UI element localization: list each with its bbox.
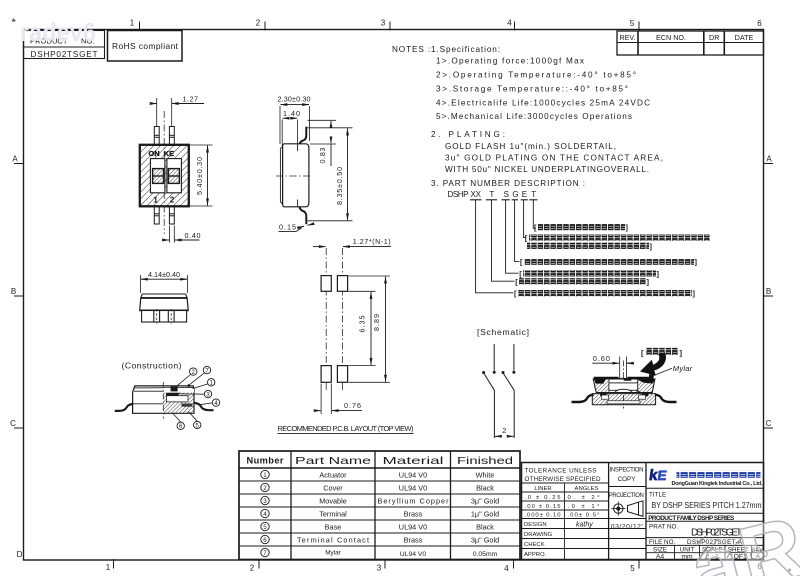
svg-text:5>.Mechanical Life:3000cycles: 5>.Mechanical Life:3000cycles Operations [436, 112, 632, 121]
zone ticks left [14, 164, 24, 429]
size row values [656, 553, 761, 560]
svg-text:UL94 V0: UL94 V0 [399, 522, 427, 531]
dim 8.89 [349, 276, 391, 382]
svg-text:3. PART NUMBER DESCRIPTION :: 3. PART NUMBER DESCRIPTION : [431, 179, 585, 188]
construction top film [134, 387, 193, 389]
svg-text:1: 1 [130, 19, 135, 28]
svg-text:4.14±0.40: 4.14±0.40 [148, 270, 180, 279]
svg-text:Movable: Movable [319, 496, 347, 505]
designator underlines [470, 199, 538, 201]
terminal contact dark bit [182, 404, 193, 407]
svg-text:DongGuan Kingtek Industrial Co: DongGuan Kingtek Industrial Co., Ltd. [672, 481, 763, 487]
svg-text:REV.: REV. [619, 33, 635, 42]
svg-text:1μ" Gold: 1μ" Gold [471, 509, 499, 518]
xsection right lead [655, 395, 677, 403]
switch 2 contacts [512, 371, 515, 374]
svg-text:APPRO.: APPRO. [524, 552, 547, 558]
color annotation line 4 [519, 269, 659, 278]
svg-text:4: 4 [507, 19, 512, 28]
svg-text:LINER: LINER [534, 486, 551, 492]
svg-text:E: E [522, 190, 527, 199]
svg-text:NOTES :1.Specification:: NOTES :1.Specification: [392, 45, 500, 54]
slider knob [171, 387, 178, 392]
materials [378, 470, 450, 558]
svg-text:8.35±0.50: 8.35±0.50 [335, 167, 344, 205]
svg-text:[: [ [525, 234, 528, 243]
svg-text:]: ] [680, 349, 683, 358]
svg-text:Beryllium Copper: Beryllium Copper [378, 496, 450, 505]
svg-text:[: [ [514, 289, 517, 298]
notes text [392, 45, 663, 188]
dim 5.40 line [207, 146, 209, 206]
lower body hatched [592, 394, 655, 405]
balloon 6 [173, 413, 185, 430]
dim 1.27 extension lines [157, 98, 172, 126]
svg-text:B: B [766, 287, 771, 296]
svg-text:Number: Number [247, 455, 284, 465]
svg-text:2.30±0.30: 2.30±0.30 [278, 95, 311, 104]
svg-text:TITLE: TITLE [649, 492, 666, 499]
side view top lead [300, 127, 307, 150]
pad centerlines [326, 248, 342, 392]
svg-text:3μ" Gold: 3μ" Gold [471, 496, 499, 505]
svg-text:(Construction): (Construction) [122, 361, 182, 371]
switch body hatched [140, 145, 189, 207]
svg-text:Cover: Cover [323, 483, 343, 492]
side view body [283, 144, 309, 207]
projection symbol [611, 501, 643, 517]
section centerline [623, 361, 625, 409]
svg-text:T: T [489, 190, 494, 199]
svg-text:R: R [730, 499, 800, 576]
front view base with feet [142, 311, 187, 323]
bottom pins [154, 207, 174, 225]
svg-text:Terminal: Terminal [319, 509, 347, 518]
svg-text:4>.Electricalife Life:1000cycl: 4>.Electricalife Life:1000cycles 25mA 24… [436, 99, 650, 108]
svg-text:A: A [12, 155, 18, 164]
svg-text:0.83: 0.83 [318, 148, 327, 164]
svg-text:.000± 0.10: .000± 0.10 [525, 512, 562, 518]
RoHS compliant box [108, 31, 183, 62]
svg-text:[: [ [534, 223, 537, 232]
svg-text:D: D [17, 550, 23, 559]
svg-text:3>.Storage Temperature::-40° t: 3>.Storage Temperature::-40° to+85° [436, 85, 628, 94]
svg-text:0.05mm: 0.05mm [473, 551, 498, 558]
dim 0.76 [321, 384, 331, 415]
part number DSHP XX T S G E T [448, 190, 537, 199]
construction left lead [115, 404, 133, 411]
svg-text:RoHS compliant: RoHS compliant [112, 41, 179, 51]
svg-text:E: E [657, 468, 668, 483]
svg-text:radev6: radev6 [20, 17, 96, 47]
tin annotation line 5 [515, 277, 649, 286]
dim 0.83 [308, 120, 337, 144]
svg-text:[: [ [515, 277, 518, 286]
svg-text:UL94 V0: UL94 V0 [399, 470, 427, 479]
svg-text:6: 6 [263, 537, 267, 544]
svg-text:[: [ [520, 258, 523, 267]
svg-text:]: ] [626, 223, 629, 232]
svg-text:DESIGN: DESIGN [524, 522, 547, 528]
svg-text:CHECK: CHECK [524, 542, 545, 548]
side view centerline [276, 175, 313, 177]
balloon 7 [187, 366, 210, 387]
svg-text:.0 ± 1°: .0 ± 1° [568, 504, 600, 510]
REV/ECN table [617, 31, 764, 55]
svg-text:B: B [11, 287, 16, 296]
tolerance text [525, 468, 601, 483]
svg-text:COPY: COPY [618, 476, 637, 483]
svg-text:DSHP: DSHP [448, 190, 469, 199]
svg-text:]: ] [657, 269, 660, 278]
construction right lead [194, 403, 214, 410]
svg-text:Brass: Brass [404, 509, 423, 518]
svg-text:Base: Base [325, 522, 342, 531]
svg-text:ON: ON [149, 149, 160, 158]
svg-text:7: 7 [263, 550, 267, 557]
svg-text:C: C [10, 419, 16, 428]
title block grid [522, 463, 764, 560]
zone letters left [10, 155, 23, 560]
upper body hatch right [638, 379, 655, 393]
finishes [471, 470, 499, 558]
svg-text:DSHP02TSGET: DSHP02TSGET [31, 50, 98, 59]
mylar film bar [594, 377, 619, 379]
svg-text:FILE NO.: FILE NO. [649, 539, 675, 546]
packing annotation line 1 [534, 223, 629, 232]
svg-text:2>.Operating Temperature:-40°: 2>.Operating Temperature:-40° to+85° [436, 71, 636, 80]
svg-text:0.60: 0.60 [593, 354, 610, 363]
svg-text:4: 4 [504, 564, 509, 573]
svg-text:0.40: 0.40 [185, 231, 201, 240]
svg-text:RECOMMENDED P.C.B. LAYOUT (TOP: RECOMMENDED P.C.B. LAYOUT (TOP VIEW) [278, 424, 415, 433]
svg-text:.00± 0.5°: .00± 0.5° [568, 512, 600, 518]
svg-text:[: [ [519, 269, 522, 278]
svg-text:3: 3 [263, 498, 267, 505]
svg-text:A4: A4 [656, 553, 665, 560]
svg-text:1.27: 1.27 [183, 94, 199, 103]
svg-text:DRAWING: DRAWING [524, 532, 553, 538]
svg-text:OTHERWISE SPECIFIED: OTHERWISE SPECIFIED [525, 476, 601, 483]
upper body feet [600, 393, 607, 397]
svg-text:UL94 V0: UL94 V0 [400, 551, 427, 558]
svg-text:1.27*(N-1): 1.27*(N-1) [353, 237, 391, 246]
svg-text:Black: Black [476, 522, 494, 531]
svg-text:4: 4 [263, 511, 267, 518]
svg-text:BY DSHP SERIES PITCH 1.27mm: BY DSHP SERIES PITCH 1.27mm [652, 501, 762, 510]
stroke travel annotation (CJK) [641, 348, 683, 358]
size row headers [653, 546, 765, 553]
svg-text:ECN NO.: ECN NO. [656, 33, 686, 42]
switch cells [150, 159, 181, 193]
svg-text:XX: XX [471, 190, 482, 199]
svg-text:UL94 V0: UL94 V0 [399, 483, 427, 492]
svg-text:]: ] [650, 242, 653, 251]
switch 1 wires [484, 344, 495, 438]
svg-text:G: G [512, 190, 518, 199]
zone numbers top [130, 19, 763, 29]
top view centerline [163, 111, 165, 234]
film clamp wedges [594, 379, 606, 383]
dim 0.40 [163, 239, 200, 241]
svg-text:5: 5 [630, 564, 635, 573]
svg-text:DR: DR [709, 33, 719, 42]
mylar film edge lines [280, 144, 297, 207]
svg-text:5: 5 [630, 19, 635, 28]
svg-text:1: 1 [153, 195, 158, 205]
leader drop lines [476, 200, 536, 293]
svg-text:1: 1 [263, 472, 267, 479]
svg-text:Terminal Contact: Terminal Contact [297, 535, 369, 544]
dim 6.35 [349, 291, 376, 365]
upper body outline [593, 379, 655, 393]
svg-text:2. PLATING:: 2. PLATING: [431, 130, 505, 139]
watermark AR bottom right [681, 499, 800, 576]
zone ticks bottom [114, 559, 640, 569]
svg-text:3u" GOLD PLATING ON THE CONTA: 3u" GOLD PLATING ON THE CONTACT AREA, [445, 154, 663, 163]
svg-text:]: ] [647, 277, 650, 286]
svg-text:SIZE: SIZE [653, 546, 667, 553]
part names [297, 470, 369, 556]
actuators [153, 169, 180, 184]
svg-text:6.35: 6.35 [358, 316, 367, 333]
plating annotation line 2 (two rows) [525, 234, 710, 251]
construction inner lines [133, 391, 163, 404]
svg-text:0.15: 0.15 [279, 223, 296, 232]
zone ticks top [140, 22, 640, 31]
parts table grid [239, 451, 520, 560]
pads [321, 276, 348, 383]
construction centerline [162, 382, 164, 419]
svg-text:[Schematic]: [Schematic] [477, 327, 529, 337]
handwriting scribbles [697, 536, 791, 572]
product no. box [24, 31, 105, 59]
svg-text:A: A [766, 155, 772, 164]
construction sectioned half hatch [163, 393, 194, 414]
svg-text:PROJECTION: PROJECTION [609, 493, 644, 499]
circled item numbers [261, 470, 269, 556]
positions annotation line 6 [514, 289, 696, 298]
company CJK name (blue) [677, 471, 761, 478]
switch 1 contacts [493, 371, 496, 374]
svg-text:Material: Material [383, 456, 444, 467]
svg-text:DATE: DATE [735, 33, 754, 42]
switch 2 wires [503, 344, 514, 438]
svg-text:3: 3 [381, 19, 386, 28]
dim 1.27 [150, 103, 204, 105]
side view bottom lead [300, 201, 307, 224]
front view body [140, 298, 189, 311]
svg-text:3: 3 [377, 564, 382, 573]
balloon 1 [193, 379, 215, 389]
svg-text:.0 ± 0.25: .0 ± 0.25 [525, 495, 562, 501]
svg-text:3μ" Gold: 3μ" Gold [471, 535, 499, 544]
lower body white cutouts [607, 401, 640, 404]
thick curved arrow [640, 353, 666, 376]
svg-text:Actuator: Actuator [319, 470, 347, 479]
svg-text:2: 2 [502, 426, 506, 435]
svg-text:Black: Black [476, 483, 494, 492]
svg-text:ANGLES: ANGLES [575, 486, 599, 492]
svg-text:0. ± 2°: 0. ± 2° [568, 495, 600, 501]
svg-text:kathy: kathy [576, 522, 593, 529]
svg-text:5.40±0.30: 5.40±0.30 [195, 157, 204, 195]
front view top film [141, 294, 187, 298]
svg-text:6: 6 [757, 19, 762, 28]
svg-text:Part Name: Part Name [295, 456, 371, 467]
svg-text:2: 2 [263, 485, 267, 492]
Mylar leader [653, 368, 672, 376]
front view pin centerlines [157, 309, 172, 324]
svg-text:C: C [766, 419, 772, 428]
svg-text:]: ] [695, 258, 698, 267]
balloon 2 [175, 368, 197, 388]
zone numbers bottom [106, 562, 763, 573]
svg-text:1.40: 1.40 [283, 109, 300, 118]
svg-text:GOLD FLASH 1u"(min.) SOLDERTAI: GOLD FLASH 1u"(min.) SOLDERTAIL, [445, 142, 616, 151]
svg-text:0.76: 0.76 [344, 401, 361, 410]
svg-text:Brass: Brass [404, 535, 423, 544]
svg-text:INSPECTION: INSPECTION [610, 468, 644, 474]
svg-text:2: 2 [170, 195, 175, 205]
svg-text:5: 5 [263, 524, 267, 531]
design rows [524, 522, 553, 558]
upper body hatch left [593, 379, 609, 393]
zone letters right [762, 155, 772, 560]
cavity [167, 396, 189, 402]
zone ticks right [764, 164, 774, 429]
svg-text:Mylar: Mylar [673, 364, 693, 373]
xsection left lead [572, 395, 594, 403]
construction body outline [133, 386, 194, 413]
movable contact [166, 393, 180, 396]
upper cavity rect [609, 383, 638, 390]
svg-text:Mylar: Mylar [325, 549, 341, 556]
svg-text:KE: KE [164, 149, 174, 158]
svg-text:2: 2 [250, 564, 255, 573]
svg-text:TOLERANCE UNLESS: TOLERANCE UNLESS [525, 468, 597, 475]
dim 0.40 extension lines [169, 226, 174, 243]
svg-text:Finished: Finished [457, 456, 513, 467]
svg-text:8.89: 8.89 [372, 314, 381, 331]
top pins [154, 127, 174, 146]
svg-text:White: White [476, 470, 495, 479]
dim 5.40 extension lines [190, 145, 213, 206]
mylar corner block [649, 374, 654, 378]
contact dome [615, 389, 641, 392]
balloon 3 [172, 390, 212, 398]
svg-text:WITH 50u" NICKEL UNDERPLATINGO: WITH 50u" NICKEL UNDERPLATINGOVERALL. [445, 165, 649, 174]
KE logo [648, 467, 668, 484]
svg-text:[: [ [641, 349, 644, 358]
contact plating annotation line 3 [520, 258, 698, 267]
svg-text:.00 ± 0.15: .00 ± 0.15 [525, 504, 562, 510]
svg-text:1>.Operating force:1000gf Max: 1>.Operating force:1000gf Max [436, 57, 584, 66]
svg-text:1: 1 [106, 563, 111, 572]
svg-text:T: T [531, 190, 536, 199]
svg-text:03/20/12': 03/20/12' [611, 523, 643, 530]
svg-text:]: ] [693, 289, 696, 298]
balloon 4 [200, 399, 220, 407]
svg-text:2: 2 [256, 19, 261, 28]
dim 8.35 [308, 128, 353, 221]
svg-text:S: S [504, 190, 509, 199]
balloon 5 [189, 412, 201, 430]
svg-text:PRAT NO.: PRAT NO. [649, 523, 678, 530]
